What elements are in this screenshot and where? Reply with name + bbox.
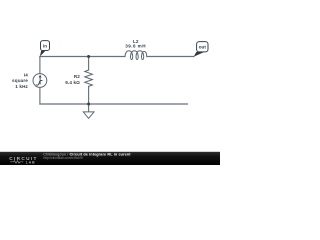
svg-text:1 kHz: 1 kHz: [15, 84, 28, 89]
svg-text:R2: R2: [74, 74, 80, 79]
svg-text:out: out: [199, 44, 207, 49]
svg-text:LAB: LAB: [26, 160, 36, 164]
svg-text:9.4 kΩ: 9.4 kΩ: [65, 80, 80, 85]
svg-text:I4: I4: [24, 72, 28, 77]
svg-text:39.6 mH: 39.6 mH: [125, 44, 146, 49]
svg-text:square: square: [12, 78, 28, 83]
svg-text:in: in: [43, 43, 47, 48]
svg-text:http://circuitlab.com/c49ch9f: http://circuitlab.com/c49ch9f: [43, 156, 83, 160]
